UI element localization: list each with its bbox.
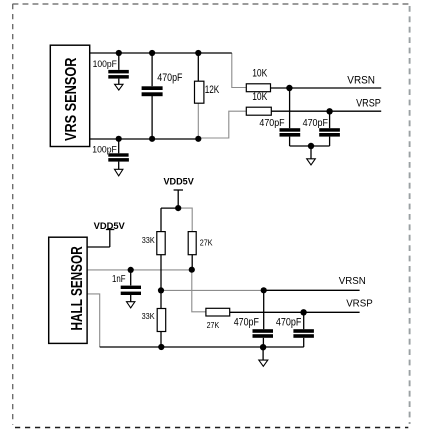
svg-text:100pF: 100pF	[93, 58, 117, 69]
svg-text:470pF: 470pF	[303, 118, 328, 129]
svg-text:470pF: 470pF	[276, 316, 302, 328]
svg-text:470pF: 470pF	[259, 118, 284, 129]
svg-text:VRSN: VRSN	[339, 276, 366, 287]
svg-text:VDD5V: VDD5V	[164, 176, 194, 186]
svg-text:100pF: 100pF	[92, 143, 117, 154]
svg-text:12K: 12K	[205, 84, 220, 96]
svg-text:470pF: 470pF	[157, 72, 183, 84]
svg-text:1nF: 1nF	[112, 274, 126, 285]
svg-text:HALL SENSOR: HALL SENSOR	[69, 246, 86, 331]
svg-text:VDD5V: VDD5V	[94, 221, 125, 231]
svg-text:27K: 27K	[200, 237, 213, 247]
svg-text:33K: 33K	[142, 311, 155, 321]
svg-text:10K: 10K	[252, 68, 268, 80]
svg-text:VRSN: VRSN	[347, 74, 375, 86]
svg-text:33K: 33K	[142, 235, 155, 245]
svg-text:VRSP: VRSP	[346, 299, 373, 310]
svg-text:VRSP: VRSP	[356, 98, 381, 110]
svg-text:27K: 27K	[207, 320, 220, 330]
svg-text:10K: 10K	[252, 91, 268, 103]
svg-text:VRS SENSOR: VRS SENSOR	[63, 57, 80, 141]
svg-text:470pF: 470pF	[234, 316, 259, 328]
